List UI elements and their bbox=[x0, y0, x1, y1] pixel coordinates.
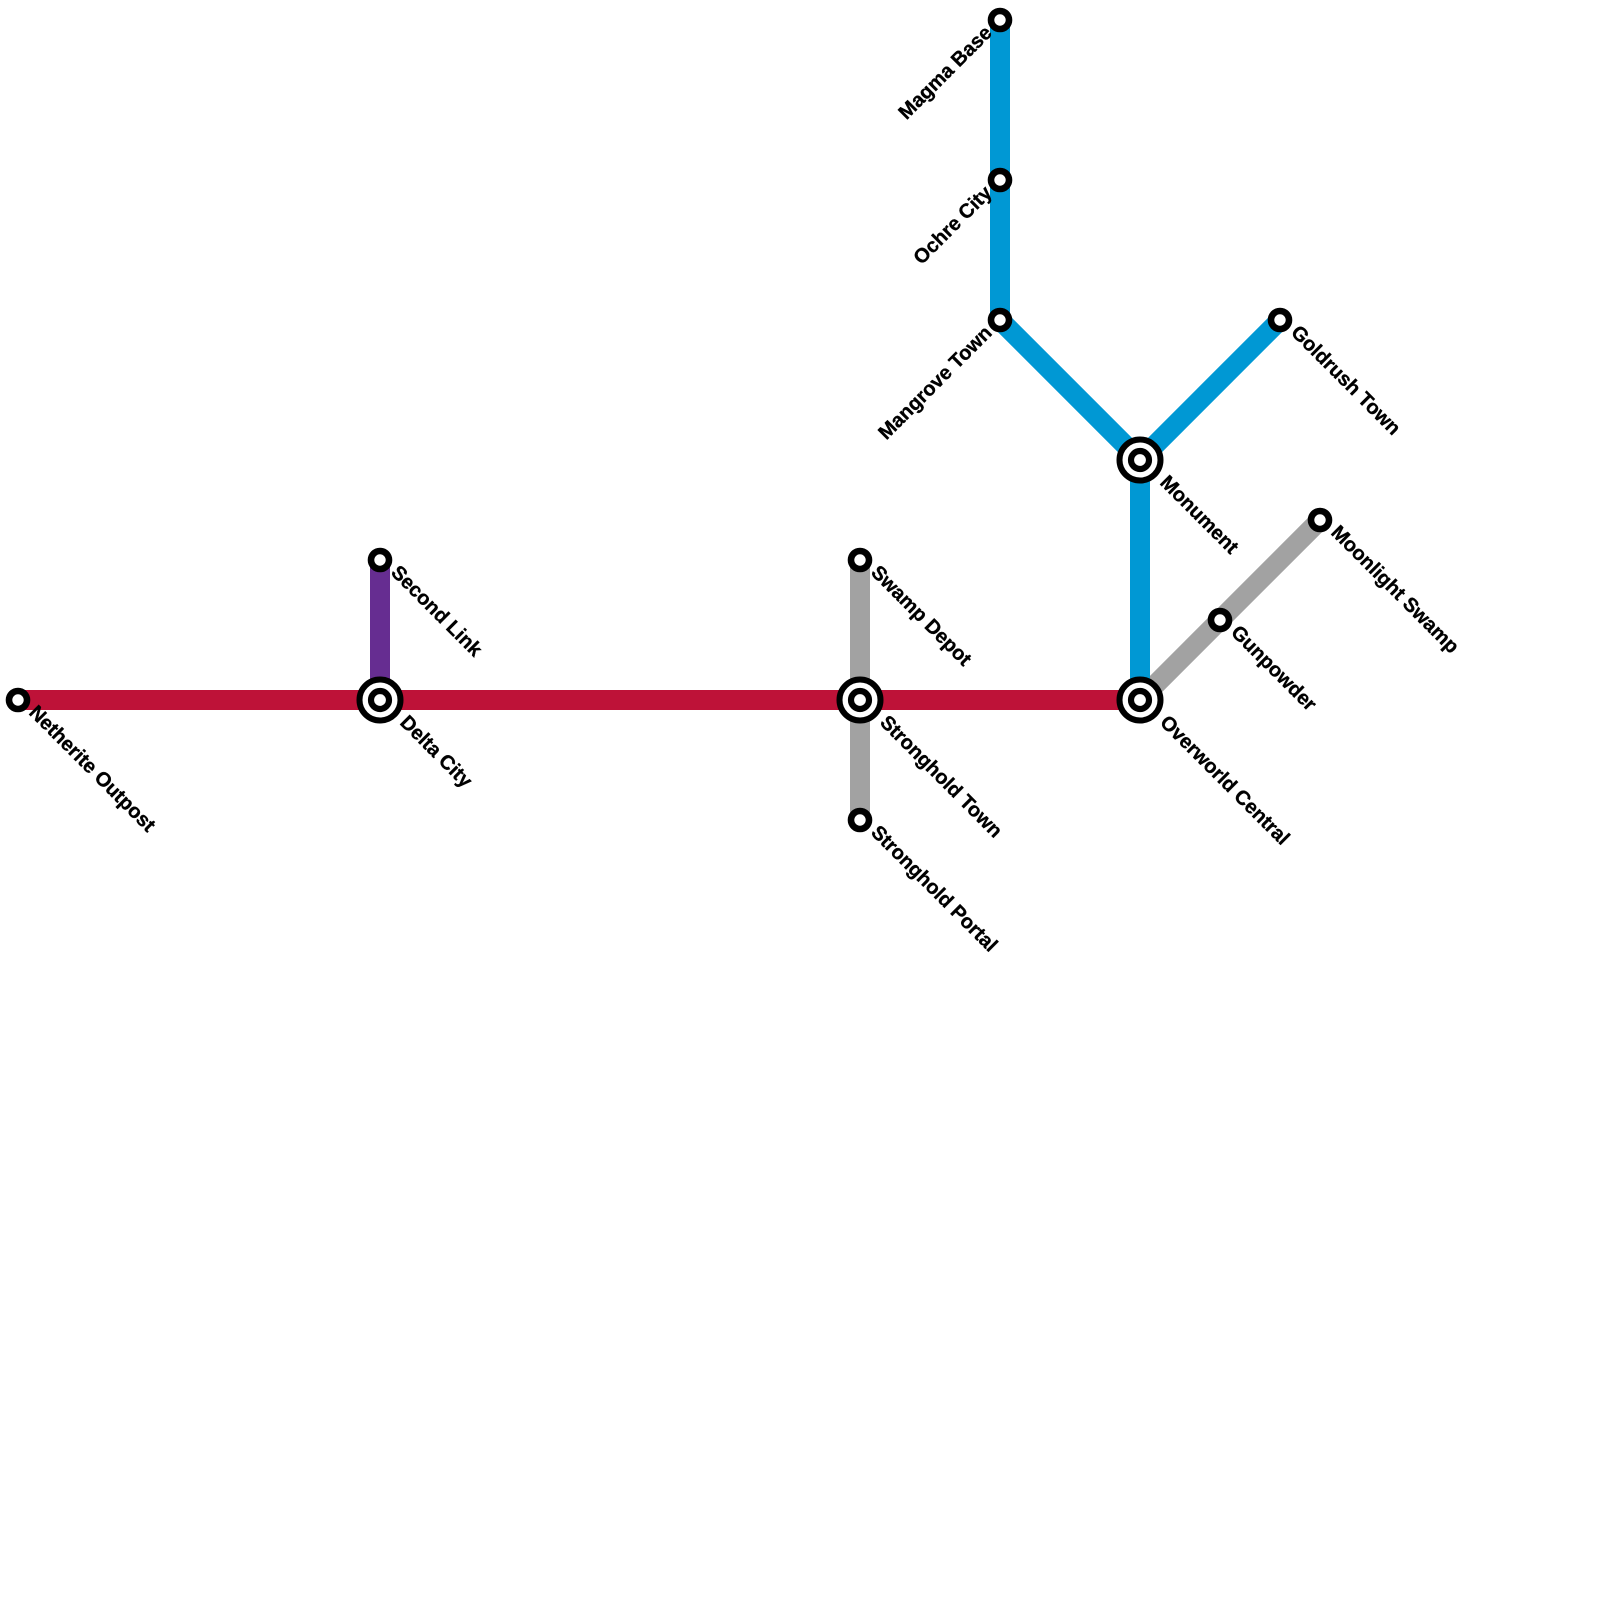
station Netherite Outpost bbox=[9, 691, 27, 709]
interchange Delta City bbox=[360, 680, 401, 721]
station Gunpowder bbox=[1211, 611, 1229, 629]
red line Netherite Outpost - Delta City - Stronghold Town - Overworld Central bbox=[18, 690, 1140, 710]
interchange Stronghold Town bbox=[840, 680, 881, 721]
station Ochre City bbox=[991, 171, 1009, 189]
blue line Goldrush Town - Monument bbox=[1140, 320, 1280, 460]
interchange Overworld Central bbox=[1120, 680, 1161, 721]
station Mangrove Town bbox=[991, 311, 1009, 329]
station Goldrush Town bbox=[1271, 311, 1289, 329]
gray line Moonlight Swamp - Gunpowder - Overworld Central bbox=[1140, 520, 1320, 700]
interchange Monument bbox=[1120, 440, 1161, 481]
station Moonlight Swamp bbox=[1311, 511, 1329, 529]
blue line Magma Base - Ochre City - Mangrove Town - Monument - Overworld Central bbox=[1000, 20, 1140, 700]
station Magma Base bbox=[991, 11, 1009, 29]
station Stronghold Portal bbox=[851, 811, 869, 829]
gray line Swamp Depot - Stronghold Town - Stronghold Portal bbox=[850, 560, 870, 820]
station Second Link bbox=[371, 551, 389, 569]
purple line Second Link - Delta City bbox=[370, 560, 390, 700]
station Swamp Depot bbox=[851, 551, 869, 569]
